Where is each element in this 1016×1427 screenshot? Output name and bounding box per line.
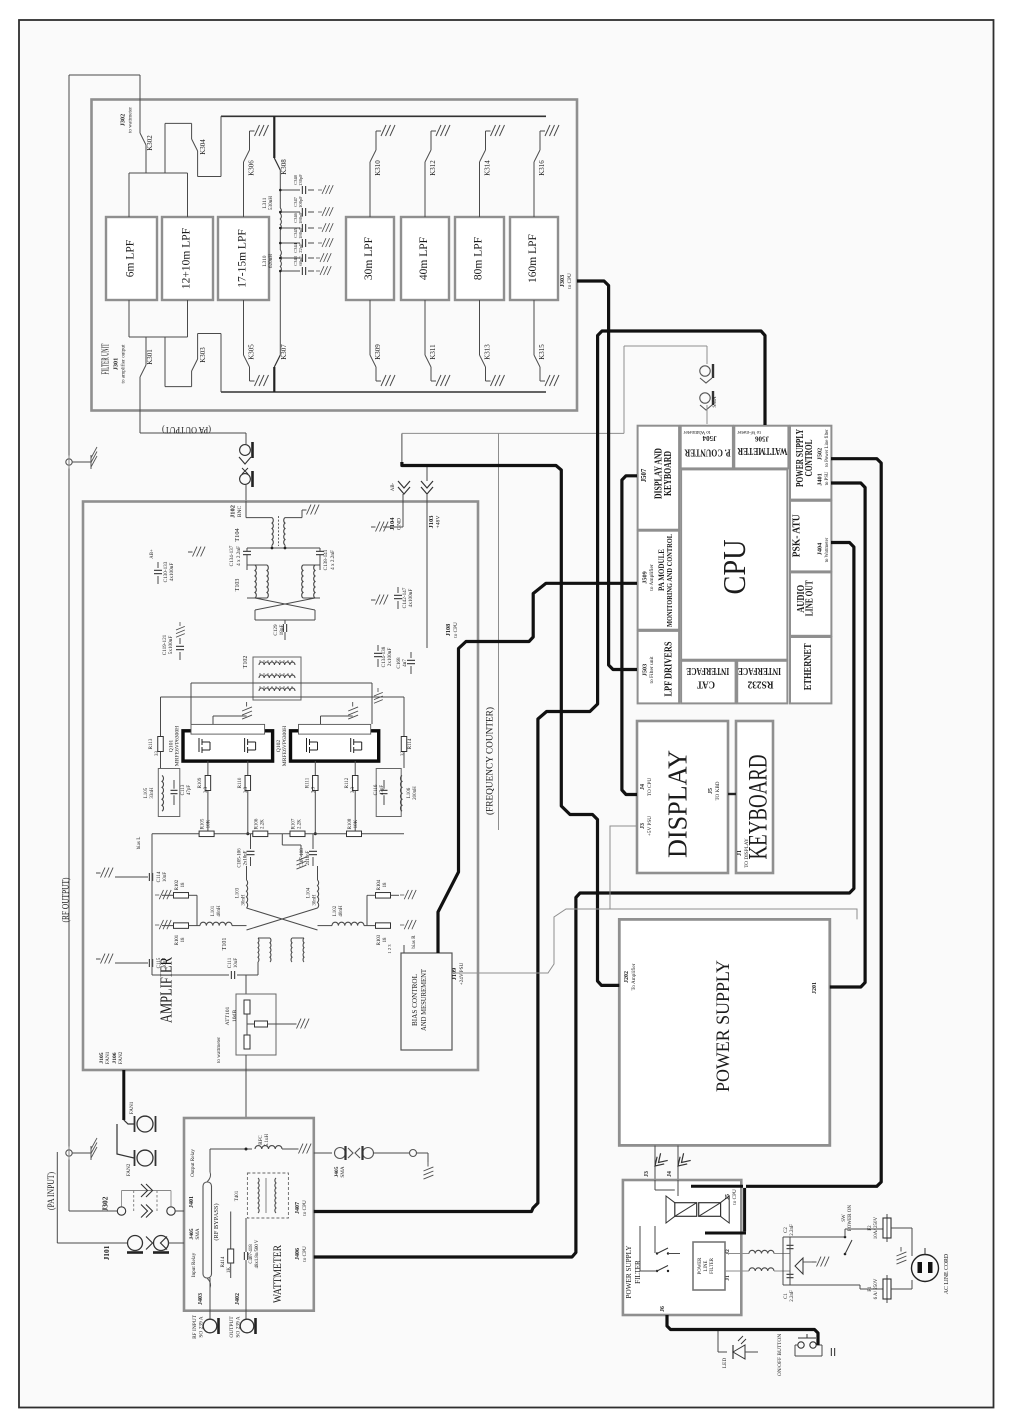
svg-text:J502: J502 xyxy=(817,448,824,460)
svg-text:LED: LED xyxy=(722,1358,728,1369)
svg-text:KEYBOARD: KEYBOARD xyxy=(663,451,674,496)
svg-text:TO CPU: TO CPU xyxy=(647,778,653,796)
svg-text:4 x 2.2nF: 4 x 2.2nF xyxy=(330,550,336,570)
svg-text:L105: L105 xyxy=(144,787,149,798)
svg-text:T103: T103 xyxy=(235,579,241,592)
svg-text:AB-: AB- xyxy=(391,482,396,491)
svg-text:PA MODULE: PA MODULE xyxy=(656,549,666,591)
svg-text:J103: J103 xyxy=(428,516,435,529)
svg-text:R111: R111 xyxy=(305,777,310,788)
svg-text:+48V: +48V xyxy=(436,516,442,529)
svg-text:J6: J6 xyxy=(660,1306,666,1312)
svg-text:K302: K302 xyxy=(146,135,154,151)
svg-text:R109: R109 xyxy=(198,777,203,788)
svg-text:BNC: BNC xyxy=(237,505,243,517)
svg-text:POWER SUPPLY: POWER SUPPLY xyxy=(625,1245,633,1299)
svg-text:J403: J403 xyxy=(198,1293,204,1305)
svg-text:F2: F2 xyxy=(868,1225,873,1231)
svg-text:to CPU: to CPU xyxy=(302,1246,308,1262)
svg-text:R110: R110 xyxy=(238,777,243,788)
svg-text:4 x 2.2nF: 4 x 2.2nF xyxy=(236,546,242,566)
svg-text:POWER: POWER xyxy=(698,1257,703,1275)
svg-text:J4: J4 xyxy=(640,784,646,790)
svg-text:K314: K314 xyxy=(484,160,492,176)
svg-text:RF INPUT: RF INPUT xyxy=(192,1314,198,1339)
svg-text:R102: R102 xyxy=(175,879,180,890)
svg-text:LINE OUT: LINE OUT xyxy=(805,580,816,616)
svg-text:200nH: 200nH xyxy=(413,786,418,800)
svg-text:J5: J5 xyxy=(708,788,714,794)
svg-text:C113: C113 xyxy=(181,784,186,795)
svg-text:BIAS CONTROL: BIAS CONTROL xyxy=(410,974,419,1026)
svg-text:47pF: 47pF xyxy=(380,785,385,796)
svg-text:P. COUNTER: P. COUNTER xyxy=(684,447,731,458)
svg-text:to CPU: to CPU xyxy=(732,1189,738,1205)
svg-text:Input Relay: Input Relay xyxy=(191,1252,197,1277)
svg-text:10dB: 10dB xyxy=(232,1010,238,1022)
svg-text:MONITORING AND CONTROL: MONITORING AND CONTROL xyxy=(666,534,674,627)
svg-text:J104: J104 xyxy=(389,517,396,531)
svg-text:2x100nF: 2x100nF xyxy=(387,648,393,667)
svg-text:2.2nF: 2.2nF xyxy=(790,1224,795,1236)
svg-text:CPU: CPU xyxy=(716,540,752,595)
svg-text:POWER ON: POWER ON xyxy=(848,1205,853,1231)
svg-text:CAT: CAT xyxy=(697,679,715,690)
svg-text:80m LPF: 80m LPF xyxy=(473,237,485,280)
svg-text:FAN2: FAN2 xyxy=(118,1051,124,1064)
svg-text:to wattmeter: to wattmeter xyxy=(216,1037,222,1063)
svg-text:160m LPF: 160m LPF xyxy=(527,234,539,283)
svg-text:C1: C1 xyxy=(784,1293,789,1299)
svg-text:+24V PSU: +24V PSU xyxy=(459,962,465,985)
svg-text:18: 18 xyxy=(181,937,186,942)
svg-text:L104: L104 xyxy=(307,887,312,898)
svg-text:SO 239 A: SO 239 A xyxy=(199,1316,205,1337)
svg-text:22pF: 22pF xyxy=(298,243,303,253)
svg-text:10A/ 250V: 10A/ 250V xyxy=(874,1216,879,1239)
svg-text:C138-141: C138-141 xyxy=(323,549,329,570)
svg-text:INTERFACE: INTERFACE xyxy=(738,665,781,676)
svg-text:(RF OUTPUT): (RF OUTPUT) xyxy=(61,878,72,923)
svg-text:J201: J201 xyxy=(812,982,818,994)
svg-text:R108: R108 xyxy=(348,818,353,829)
svg-text:SO 239 A: SO 239 A xyxy=(236,1316,242,1337)
svg-text:T104: T104 xyxy=(234,527,241,541)
svg-text:SW: SW xyxy=(842,1214,847,1222)
svg-text:POWER SUPPLY: POWER SUPPLY xyxy=(713,960,734,1092)
svg-text:10K: 10K xyxy=(207,819,212,828)
svg-text:(FREQUENCY COUNTER): (FREQUENCY COUNTER) xyxy=(485,707,496,815)
svg-text:40m LPF: 40m LPF xyxy=(418,237,430,280)
svg-text:J1: J1 xyxy=(725,1275,731,1281)
svg-text:J302: J302 xyxy=(101,1196,110,1211)
svg-text:R104: R104 xyxy=(377,879,382,890)
svg-text:4n7: 4n7 xyxy=(402,659,408,667)
svg-text:TO DISPLAY: TO DISPLAY xyxy=(744,838,750,868)
svg-text:to Filter unit: to Filter unit xyxy=(649,656,655,683)
svg-text:180pF: 180pF xyxy=(298,212,303,224)
svg-text:K305: K305 xyxy=(248,344,256,360)
svg-text:ETHERNET: ETHERNET xyxy=(803,643,814,690)
svg-text:33: 33 xyxy=(155,751,160,757)
svg-text:R107: R107 xyxy=(292,818,297,829)
svg-text:J3: J3 xyxy=(644,1171,650,1177)
svg-text:To Amplifier: To Amplifier xyxy=(630,963,637,990)
svg-text:Output Relay: Output Relay xyxy=(190,1149,196,1177)
svg-text:J404: J404 xyxy=(817,543,824,555)
svg-text:K308: K308 xyxy=(280,159,288,175)
svg-text:3.3: 3.3 xyxy=(311,786,316,793)
svg-text:F1: F1 xyxy=(868,1286,873,1292)
svg-text:J302: J302 xyxy=(120,114,127,126)
svg-text:C115: C115 xyxy=(157,957,162,968)
svg-text:to CPU: to CPU xyxy=(453,622,459,638)
svg-text:33nH: 33nH xyxy=(150,787,155,799)
svg-text:R106: R106 xyxy=(254,818,259,829)
svg-text:(PA OUTPUT): (PA OUTPUT) xyxy=(162,424,211,435)
svg-text:5x100nF: 5x100nF xyxy=(168,636,174,655)
svg-text:130pF: 130pF xyxy=(298,174,303,186)
svg-text:3.3: 3.3 xyxy=(204,786,209,793)
svg-text:SMA: SMA xyxy=(712,396,718,407)
svg-text:LINE: LINE xyxy=(704,1260,709,1271)
svg-text:4x100nF: 4x100nF xyxy=(408,589,414,608)
svg-text:INTERFACE: INTERFACE xyxy=(686,665,729,676)
svg-text:L102: L102 xyxy=(333,905,338,916)
svg-text:10uF: 10uF xyxy=(234,958,239,969)
svg-text:to Power Line filter: to Power Line filter xyxy=(825,429,830,467)
svg-text:GND: GND xyxy=(397,518,403,530)
svg-text:K303: K303 xyxy=(199,347,207,363)
svg-text:J402: J402 xyxy=(235,1293,241,1305)
svg-text:C134-137: C134-137 xyxy=(229,545,235,566)
svg-text:2.2K: 2.2K xyxy=(260,819,265,829)
svg-text:30nH: 30nH xyxy=(242,894,247,906)
svg-text:18: 18 xyxy=(181,882,186,887)
svg-text:18: 18 xyxy=(383,937,388,942)
svg-text:J406: J406 xyxy=(295,1248,301,1260)
svg-text:C114: C114 xyxy=(157,871,162,882)
svg-text:C105-106: C105-106 xyxy=(238,848,243,868)
svg-text:3.3: 3.3 xyxy=(351,786,356,793)
svg-text:J401: J401 xyxy=(817,473,824,485)
svg-text:L106: L106 xyxy=(407,787,412,798)
svg-text:R105: R105 xyxy=(201,818,206,829)
svg-text:to wattmeter: to wattmeter xyxy=(128,107,134,133)
svg-text:to W-meter: to W-meter xyxy=(737,429,761,435)
svg-text:K304: K304 xyxy=(199,139,207,155)
svg-text:6m LPF: 6m LPF xyxy=(125,240,137,277)
svg-text:to CPU: to CPU xyxy=(567,273,573,289)
svg-text:2.2K: 2.2K xyxy=(298,819,303,829)
svg-text:C2: C2 xyxy=(784,1227,789,1233)
svg-text:bias L: bias L xyxy=(136,837,142,850)
svg-text:R112: R112 xyxy=(345,777,350,788)
svg-text:FAN1: FAN1 xyxy=(129,1101,135,1114)
svg-text:K315: K315 xyxy=(538,344,546,360)
svg-text:J407: J407 xyxy=(295,1202,301,1214)
svg-text:AND MESUREMENT: AND MESUREMENT xyxy=(419,969,428,1031)
svg-text:R101: R101 xyxy=(175,934,180,945)
svg-text:K313: K313 xyxy=(484,344,492,360)
svg-text:1K: 1K xyxy=(227,1267,232,1274)
svg-text:J303: J303 xyxy=(559,275,566,287)
svg-text:RFC: RFC xyxy=(259,1135,264,1145)
svg-text:J301: J301 xyxy=(113,358,120,370)
svg-text:bias R: bias R xyxy=(411,935,417,949)
svg-text:L101: L101 xyxy=(211,905,216,916)
svg-text:4x100nF: 4x100nF xyxy=(169,563,175,582)
svg-text:C407-418: C407-418 xyxy=(249,1244,254,1264)
svg-text:T101: T101 xyxy=(222,938,228,951)
svg-text:K316: K316 xyxy=(538,160,546,176)
svg-text:to CPU: to CPU xyxy=(302,1200,308,1216)
svg-text:J101: J101 xyxy=(102,1245,111,1260)
svg-text:3.3: 3.3 xyxy=(244,786,249,793)
svg-text:2x10nF: 2x10nF xyxy=(244,850,249,865)
svg-text:100pF: 100pF xyxy=(298,196,303,208)
svg-text:R113: R113 xyxy=(149,738,154,749)
svg-text:J503: J503 xyxy=(642,664,649,676)
svg-text:10nF: 10nF xyxy=(163,958,168,969)
svg-text:5.1uH: 5.1uH xyxy=(265,1133,270,1146)
svg-text:ON/OFF BUTTON: ON/OFF BUTTON xyxy=(777,1334,783,1376)
svg-text:48x1.8n/500 V: 48x1.8n/500 V xyxy=(255,1239,260,1268)
svg-text:AB+: AB+ xyxy=(150,549,155,559)
svg-text:620nH: 620nH xyxy=(268,254,274,268)
svg-text:RS232: RS232 xyxy=(748,679,774,690)
svg-text:10nF: 10nF xyxy=(163,872,168,883)
svg-text:(RF BYPASS): (RF BYPASS) xyxy=(213,1203,220,1240)
svg-text:J102: J102 xyxy=(230,505,237,518)
svg-text:FAN1: FAN1 xyxy=(105,1051,111,1064)
svg-text:PSK- ATU: PSK- ATU xyxy=(792,514,803,557)
svg-text:J401: J401 xyxy=(189,1196,195,1208)
svg-text:R114: R114 xyxy=(408,738,413,749)
svg-text:WATTMETER: WATTMETER xyxy=(737,445,788,456)
svg-text:K306: K306 xyxy=(248,160,256,176)
svg-text:J5: J5 xyxy=(725,1194,731,1200)
svg-text:SMA: SMA xyxy=(195,1228,201,1239)
svg-text:J109: J109 xyxy=(451,968,458,980)
svg-text:18: 18 xyxy=(383,882,388,887)
svg-text:LPF DRIVERS: LPF DRIVERS xyxy=(664,641,675,696)
svg-text:30m LPF: 30m LPF xyxy=(363,237,375,280)
svg-text:40nH: 40nH xyxy=(339,905,344,917)
svg-text:CONTROL: CONTROL xyxy=(804,439,815,476)
svg-text:J509: J509 xyxy=(642,571,649,583)
svg-text:J108: J108 xyxy=(445,624,452,636)
svg-text:to amplifier output: to amplifier output xyxy=(120,344,127,383)
svg-text:6 A/ 250V: 6 A/ 250V xyxy=(874,1278,879,1299)
svg-text:FILTER UNIT: FILTER UNIT xyxy=(101,343,112,374)
svg-text:to Amplifier: to Amplifier xyxy=(648,564,655,591)
svg-text:K309: K309 xyxy=(374,344,382,360)
svg-text:WATTMETER: WATTMETER xyxy=(270,1245,284,1303)
svg-text:T401: T401 xyxy=(235,1190,240,1201)
svg-text:530nH: 530nH xyxy=(268,196,274,210)
svg-text:J507: J507 xyxy=(641,468,648,482)
svg-text:C111: C111 xyxy=(228,957,233,968)
svg-text:C116: C116 xyxy=(374,784,379,795)
svg-text:ATT101: ATT101 xyxy=(225,1006,231,1025)
svg-text:to PSU: to PSU xyxy=(825,471,830,485)
svg-text:K311: K311 xyxy=(429,344,437,360)
svg-text:FILTER: FILTER xyxy=(634,1260,642,1284)
svg-text:R414: R414 xyxy=(221,1256,226,1267)
svg-text:180pF: 180pF xyxy=(298,227,303,239)
svg-text:2.2nF: 2.2nF xyxy=(790,1290,795,1302)
svg-text:2x10nF: 2x10nF xyxy=(306,850,311,865)
svg-text:K310: K310 xyxy=(374,160,382,176)
svg-text:10K: 10K xyxy=(354,819,359,828)
svg-text:K312: K312 xyxy=(429,160,437,176)
svg-text:1 2 3: 1 2 3 xyxy=(387,944,392,954)
svg-text:18pF: 18pF xyxy=(279,625,285,636)
svg-text:68pF: 68pF xyxy=(298,256,303,266)
svg-text:K307: K307 xyxy=(280,344,288,360)
svg-text:12+10m LPF: 12+10m LPF xyxy=(181,228,193,289)
svg-text:R103: R103 xyxy=(377,934,382,945)
svg-text:40nH: 40nH xyxy=(217,905,222,917)
svg-text:J1: J1 xyxy=(737,850,743,856)
svg-text:17-15m LPF: 17-15m LPF xyxy=(237,229,249,287)
svg-text:+5V PSU: +5V PSU xyxy=(647,816,653,836)
svg-text:47pF: 47pF xyxy=(187,785,192,796)
svg-text:MRFE6VP6300H: MRFE6VP6300H xyxy=(175,726,181,766)
svg-text:AC LINE CORD: AC LINE CORD xyxy=(944,1254,950,1294)
svg-text:L103: L103 xyxy=(236,887,241,898)
svg-text:J4: J4 xyxy=(667,1171,673,1177)
svg-text:FAN2: FAN2 xyxy=(126,1163,132,1176)
svg-text:TO KBD: TO KBD xyxy=(715,781,721,800)
svg-text:MRFE6VP6300H: MRFE6VP6300H xyxy=(282,726,288,766)
svg-text:DISPLAY: DISPLAY xyxy=(663,750,693,858)
svg-text:K301: K301 xyxy=(146,349,154,365)
svg-text:to Wattmeter: to Wattmeter xyxy=(683,429,710,435)
svg-text:T102: T102 xyxy=(243,656,249,669)
svg-text:(PA INPUT): (PA INPUT) xyxy=(46,1172,57,1210)
svg-text:J202: J202 xyxy=(624,971,630,983)
svg-text:J3: J3 xyxy=(640,823,646,829)
svg-text:SMA: SMA xyxy=(340,1166,346,1177)
svg-text:to Wattmeter: to Wattmeter xyxy=(825,537,830,562)
svg-text:OUTPUT: OUTPUT xyxy=(229,1316,235,1338)
svg-text:30nH: 30nH xyxy=(313,894,318,906)
svg-text:FILTER: FILTER xyxy=(710,1257,715,1274)
